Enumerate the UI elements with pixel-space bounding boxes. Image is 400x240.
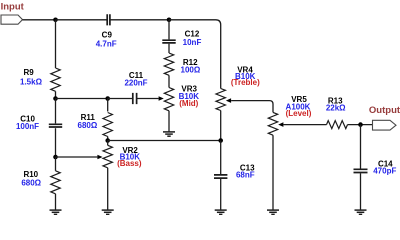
ground under VR3 <box>163 132 175 136</box>
potentiometer VR2 body <box>103 145 112 168</box>
svg-text:100Ω: 100Ω <box>181 66 201 75</box>
VR5 wiper arrow <box>278 122 283 127</box>
capacitor C12 <box>162 40 175 43</box>
svg-text:680Ω: 680Ω <box>78 121 98 130</box>
node H junction <box>358 122 363 127</box>
ground under R10 <box>50 210 62 214</box>
svg-text:C9: C9 <box>102 31 113 40</box>
resistor R11 <box>103 113 112 137</box>
wire node H down to C14 <box>360 125 362 169</box>
svg-text:(Treble): (Treble) <box>231 78 260 87</box>
wire node F to node G <box>108 140 221 142</box>
wire node D down to R11 <box>107 99 109 112</box>
wire C12 to R12 <box>168 44 170 53</box>
svg-text:680Ω: 680Ω <box>21 178 41 187</box>
node C junction <box>53 96 58 101</box>
svg-text:Input: Input <box>1 1 25 12</box>
wire C9 to node B <box>110 19 169 21</box>
potentiometer VR5 body <box>268 112 277 135</box>
svg-text:Output: Output <box>369 105 400 116</box>
svg-text:100nF: 100nF <box>16 122 39 131</box>
wire VR3 to ground <box>168 111 170 132</box>
wire R12 to VR3 body <box>168 75 170 87</box>
wire VR2 to ground <box>107 168 109 210</box>
capacitor C9 <box>107 14 110 25</box>
node F junction <box>105 138 110 143</box>
capacitor C13 <box>214 175 227 178</box>
potentiometer VR3 body <box>164 88 173 111</box>
svg-text:(Bass): (Bass) <box>117 159 142 168</box>
svg-text:R9: R9 <box>23 68 34 77</box>
node A junction <box>53 18 58 23</box>
VR5 wiper wire to R13 <box>283 124 326 126</box>
VR4 wiper wire to VR5 top (rounded corner) <box>231 101 273 113</box>
resistor R9 <box>51 68 60 91</box>
wire C11 to VR3 wiper <box>137 98 159 100</box>
wire node C down to C10 <box>55 99 57 124</box>
svg-text:(Level): (Level) <box>286 109 312 118</box>
node D junction <box>105 96 110 101</box>
capacitor C10 <box>49 124 62 127</box>
wire node B to VR4 top (rounded corner) <box>169 20 221 89</box>
svg-text:4.7nF: 4.7nF <box>96 39 117 48</box>
VR2 wiper arrow <box>97 155 102 160</box>
node B junction <box>167 18 172 23</box>
wire node F to VR2 body <box>107 141 109 146</box>
wire R11 to node F <box>107 137 109 141</box>
VR4 wiper arrow <box>226 98 231 103</box>
input connector <box>1 15 23 24</box>
output connector <box>373 120 397 130</box>
wire VR5 to ground <box>272 135 274 210</box>
svg-text:68nF: 68nF <box>236 171 255 180</box>
wire C14 to ground <box>360 173 362 210</box>
svg-text:470pF: 470pF <box>373 167 396 176</box>
wire node A to C9 <box>56 19 108 21</box>
capacitor C14 <box>354 169 368 172</box>
resistor R12 <box>164 53 173 75</box>
wire R13 to output tag <box>348 124 373 126</box>
svg-text:220nF: 220nF <box>124 79 147 88</box>
svg-text:1.5kΩ: 1.5kΩ <box>20 78 43 87</box>
VR2 wiper wire from node E <box>56 156 98 158</box>
svg-text:(Mid): (Mid) <box>179 99 198 108</box>
node G junction <box>218 138 223 143</box>
resistor R10 <box>51 171 60 194</box>
VR3 wiper arrow <box>159 96 164 101</box>
ground under C13 <box>215 210 227 214</box>
wire VR4 to node G <box>220 111 222 141</box>
wire node E down to R10 <box>55 157 57 171</box>
wire node B down to C12 <box>168 20 170 40</box>
svg-text:10nF: 10nF <box>183 38 202 47</box>
wire C10 to node E <box>55 128 57 157</box>
ground under C14 <box>355 210 367 214</box>
node E junction <box>53 155 58 160</box>
svg-text:22kΩ: 22kΩ <box>326 104 346 113</box>
wire node C to node D <box>56 98 108 100</box>
potentiometer VR4 body <box>216 89 225 111</box>
ground under VR5 <box>267 210 279 214</box>
wire node A down to R9 <box>55 20 57 68</box>
capacitor C11 <box>133 93 137 104</box>
wire node G down to C13 <box>220 141 222 175</box>
wire input to node A <box>23 19 56 21</box>
ground under VR2 <box>102 210 114 214</box>
wire R9 to node C <box>55 91 57 98</box>
wire node D to C11 <box>108 98 133 100</box>
wire C13 to ground <box>220 179 222 210</box>
resistor R13 <box>327 121 348 129</box>
wire R10 to ground <box>55 194 57 210</box>
